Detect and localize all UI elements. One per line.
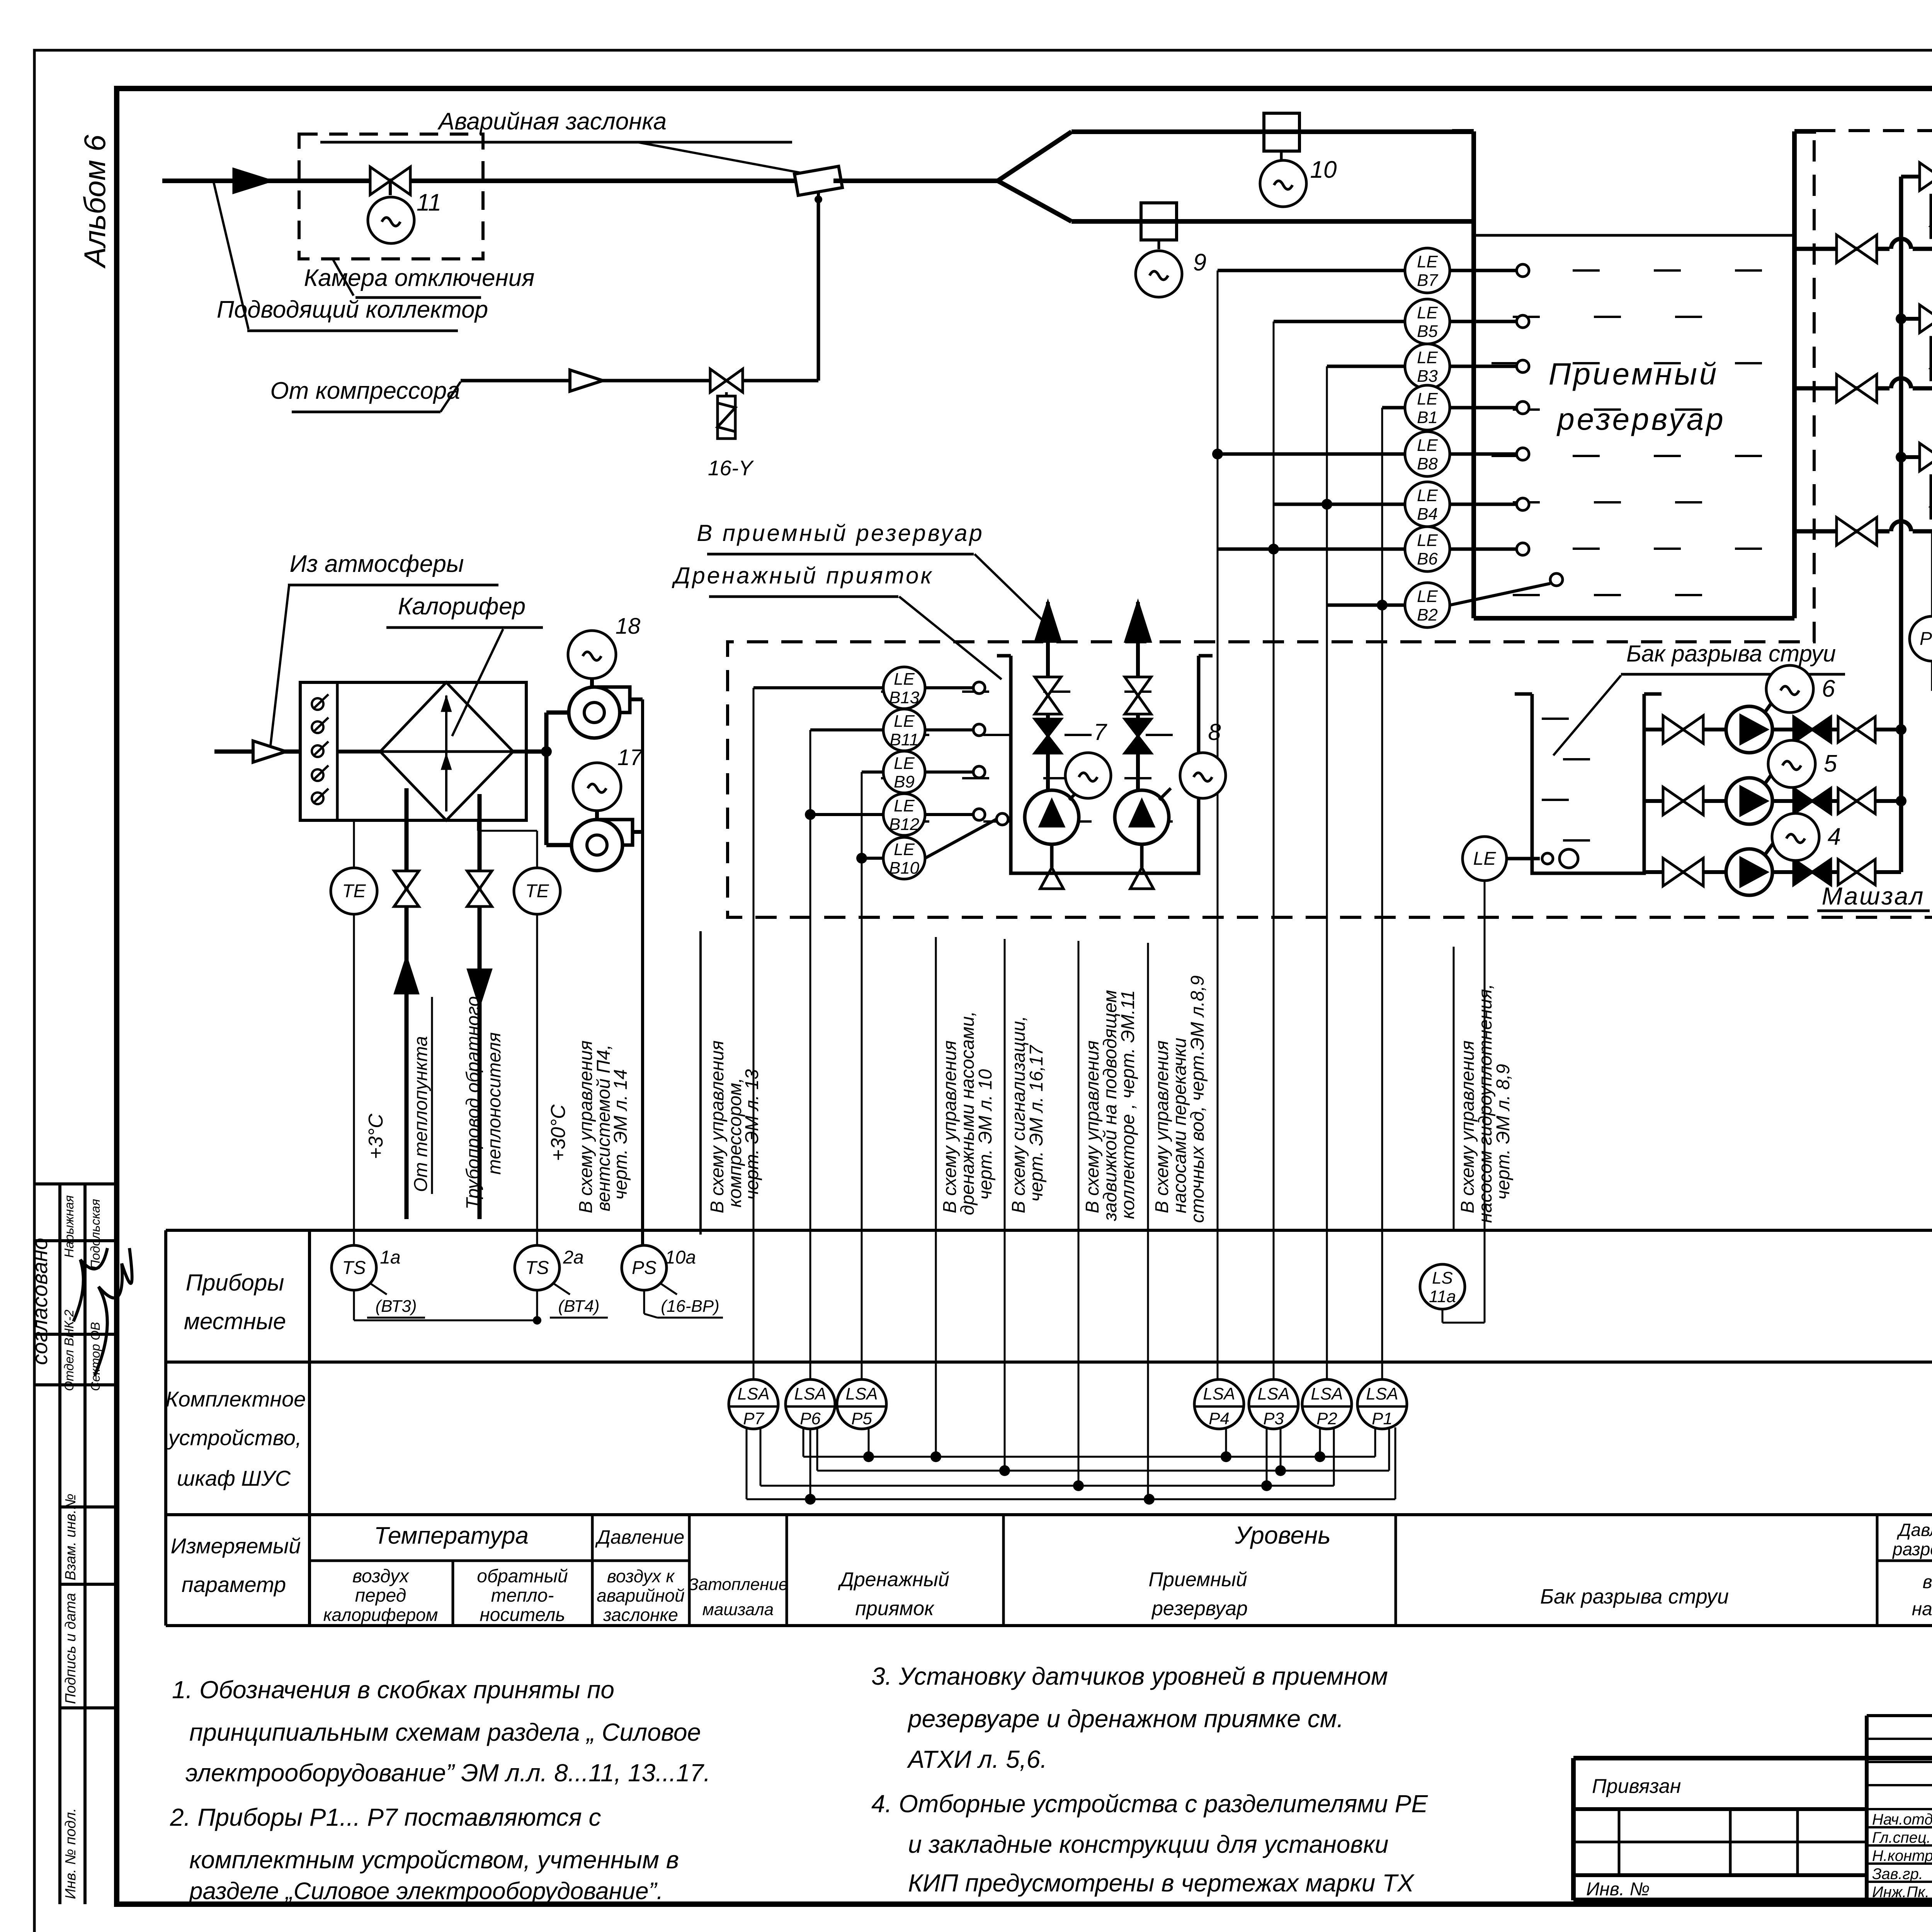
svg-text:LE: LE <box>1417 587 1438 606</box>
LSA relay Р3 <box>1249 1379 1298 1429</box>
svg-text:разделе „Силовое электрообору: разделе „Силовое электрооборудование”. <box>189 1878 663 1905</box>
valve suction pump1 <box>1837 517 1857 545</box>
svg-text:черт. ЭМ л. 14: черт. ЭМ л. 14 <box>611 1069 631 1200</box>
LSA relay Р4 <box>1194 1379 1244 1429</box>
svg-text:В10: В10 <box>889 859 920 878</box>
svg-text:Р4: Р4 <box>1209 1409 1230 1428</box>
svg-text:черт. ЭМ л. 8,9: черт. ЭМ л. 8,9 <box>1493 1064 1514 1200</box>
svg-text:11: 11 <box>417 189 441 216</box>
svg-text:черт. ЭМ л. 10: черт. ЭМ л. 10 <box>975 1069 996 1200</box>
svg-text:заслонке: заслонке <box>603 1605 678 1625</box>
duct fork <box>998 132 1071 181</box>
margin signature squiggles <box>73 1248 107 1321</box>
reservoir bottom <box>1474 616 1794 621</box>
wire B5 drop <box>1274 320 1405 323</box>
wire B4 join <box>1274 503 1405 506</box>
svg-text:комплектным устройством, учте: комплектным устройством, учтенным в <box>189 1846 679 1874</box>
svg-text:TE: TE <box>342 881 366 901</box>
TE sensor return <box>514 868 560 914</box>
sump tank <box>1011 670 1199 873</box>
LE sensor B1 <box>1405 385 1450 430</box>
wire B1 drop <box>1382 406 1405 410</box>
svg-text:LSA: LSA <box>1366 1384 1398 1403</box>
valve hydro out 5 <box>1838 788 1857 814</box>
svg-text:Нарыжная: Нарыжная <box>62 1195 76 1258</box>
svg-text:В12: В12 <box>889 815 919 834</box>
wire B3 drop <box>1327 365 1405 368</box>
damper box 10 <box>1264 113 1299 151</box>
svg-text:В5: В5 <box>1417 322 1438 341</box>
svg-text:LSA: LSA <box>1203 1384 1235 1403</box>
svg-text:10а: 10а <box>665 1247 696 1268</box>
check valve hydro 6 <box>1794 717 1812 742</box>
flow arrow on collector <box>234 169 270 192</box>
bus line 4 <box>746 1427 748 1499</box>
callout podvod <box>214 182 248 329</box>
svg-text:коллекторе , черт. ЭМ.11: коллекторе , черт. ЭМ.11 <box>1118 990 1138 1219</box>
svg-text:В4: В4 <box>1417 505 1438 524</box>
svg-text:Альбом 6: Альбом 6 <box>78 134 112 269</box>
svg-text:черт. ЭМ л. 13: черт. ЭМ л. 13 <box>742 1069 762 1200</box>
camera otklyucheniya dashed box <box>299 134 483 259</box>
callout camera <box>333 260 354 296</box>
callout drenazh <box>899 597 1002 679</box>
hydro pump 4 <box>1726 849 1772 895</box>
svg-text:17: 17 <box>617 745 643 770</box>
callout bak <box>1553 675 1621 755</box>
svg-text:Уровень: Уровень <box>1235 1521 1331 1549</box>
svg-text:Бак разрыва струи: Бак разрыва струи <box>1540 1585 1729 1608</box>
wire TE air down <box>353 914 355 1245</box>
callout priemny <box>975 554 1045 623</box>
wire hydro collector dots <box>1896 724 1906 735</box>
svg-text:2. Приборы Р1... Р7 поставл: 2. Приборы Р1... Р7 поставляются с <box>170 1803 601 1831</box>
signature column grid <box>1867 1714 1932 1717</box>
bus stubs LSA <box>868 1427 870 1457</box>
svg-text:8: 8 <box>1208 719 1221 745</box>
svg-text:Инж.Пк.: Инж.Пк. <box>1872 1884 1929 1901</box>
valve heat supply <box>394 871 419 889</box>
actuator circle 11 <box>368 197 414 243</box>
LE sensor B13 <box>883 667 925 709</box>
wire kompressor label line <box>699 931 702 1235</box>
LE sensor B11 <box>883 709 925 751</box>
wire+label shema zadvizhka <box>1078 941 1080 1486</box>
svg-text:разрежение: разрежение <box>1892 1539 1932 1559</box>
svg-text:Гл.спец.: Гл.спец. <box>1872 1829 1931 1846</box>
LE sensor bak <box>1463 837 1507 881</box>
bus line 3 <box>760 1427 762 1486</box>
bus line 2 <box>816 1427 818 1471</box>
motor 6 <box>1765 699 1774 713</box>
LSA relay Р2 <box>1302 1379 1352 1429</box>
svg-text:(ВТ4): (ВТ4) <box>558 1297 599 1316</box>
wire duct upper branch <box>1071 129 1474 134</box>
wire compressor line <box>461 379 711 383</box>
LE sensor B10 <box>883 837 925 879</box>
svg-text:обратный: обратный <box>477 1566 568 1587</box>
svg-text:Дренажный прияток: Дренажный прияток <box>672 563 934 588</box>
heat supply pipe <box>405 788 409 1219</box>
LE sensor B6 <box>1405 527 1450 571</box>
valve suction pump3 <box>1837 235 1857 263</box>
title block outline <box>1573 1756 1932 1760</box>
svg-text:В приемный резервуар: В приемный резервуар <box>697 520 984 546</box>
svg-text:Р3: Р3 <box>1263 1409 1284 1428</box>
svg-text:4: 4 <box>1828 823 1841 850</box>
svg-text:Давление-: Давление- <box>1896 1520 1932 1540</box>
motor 17 <box>595 811 599 820</box>
svg-text:машзала: машзала <box>702 1600 774 1619</box>
svg-text:LSA: LSA <box>737 1384 769 1403</box>
motor 8 <box>1159 788 1171 800</box>
svg-text:LE: LE <box>1417 252 1438 271</box>
svg-text:Дренажный: Дренажный <box>838 1568 949 1591</box>
wire air inlet <box>214 750 300 754</box>
valve suction pump2 <box>1837 374 1857 402</box>
solenoid valve 16-Y <box>710 369 726 392</box>
wire B2 join <box>1327 604 1405 607</box>
svg-text:TS: TS <box>342 1258 366 1278</box>
svg-text:АТХИ л. 5,6.: АТХИ л. 5,6. <box>906 1745 1047 1773</box>
valve hydro out 4 <box>1838 859 1857 885</box>
wire suction pump3 <box>1794 247 1932 251</box>
svg-text:(16-ВР): (16-ВР) <box>661 1297 719 1316</box>
svg-text:В9: В9 <box>894 772 915 791</box>
open arrow compressor <box>570 370 603 391</box>
motor 4 <box>1765 842 1774 855</box>
wire B6 join <box>1218 548 1405 551</box>
callout to damper <box>638 142 811 175</box>
LE sensor B4 <box>1405 482 1450 527</box>
bus line 1 <box>803 1427 804 1457</box>
svg-text:LE: LE <box>894 754 915 773</box>
svg-text:16-Y: 16-Y <box>708 456 754 480</box>
LSA relay Р7 <box>729 1379 778 1429</box>
svg-text:Отдел ВНК-2: Отдел ВНК-2 <box>62 1310 76 1391</box>
row3 verticals <box>591 1515 594 1626</box>
svg-text:Измеряемый: Измеряемый <box>171 1534 301 1558</box>
svg-text:В8: В8 <box>1417 454 1438 473</box>
svg-text:LE: LE <box>894 840 915 859</box>
svg-text:LE: LE <box>1417 303 1438 322</box>
svg-text:электрооборудование” ЭМ л.л. 8: электрооборудование” ЭМ л.л. 8...11, 13.… <box>185 1759 711 1787</box>
svg-text:2а: 2а <box>563 1247 583 1268</box>
callout atmosfera <box>270 586 289 746</box>
svg-text:11а: 11а <box>1429 1287 1456 1306</box>
svg-text:Приборы: Приборы <box>186 1270 284 1296</box>
svg-text:В3: В3 <box>1417 367 1438 386</box>
motor 7 <box>1069 788 1081 800</box>
arrow heat return <box>468 970 491 1005</box>
svg-text:LE: LE <box>894 712 915 731</box>
svg-text:Взам. инв.№: Взам. инв.№ <box>63 1494 79 1580</box>
fan 2 scroll <box>600 820 633 845</box>
svg-text:LSA: LSA <box>1311 1384 1343 1403</box>
svg-text:В1: В1 <box>1417 408 1438 427</box>
svg-text:LE: LE <box>1417 531 1438 550</box>
heat return pipe <box>478 794 482 1219</box>
bak tank <box>1532 694 1644 873</box>
svg-text:КИП предусмотрены в чертежа: КИП предусмотрены в чертежах марки ТХ <box>908 1869 1415 1897</box>
svg-text:воздух к: воздух к <box>607 1566 675 1586</box>
wire LE bak down <box>1484 881 1486 1323</box>
wire hydro line 6 <box>1644 728 1901 731</box>
heater diamond <box>380 682 513 820</box>
valve hydro in 5 <box>1663 787 1683 815</box>
wire hydro line 4 <box>1644 870 1901 874</box>
wire hydro line 5 <box>1644 799 1901 803</box>
reservoir water level <box>1474 234 1794 237</box>
svg-text:18: 18 <box>616 614 641 639</box>
wire+label shema signalizacii mid <box>1004 939 1006 1471</box>
svg-text:В13: В13 <box>889 688 920 707</box>
svg-text:+30°С: +30°С <box>547 1104 570 1161</box>
PE hydro <box>1931 531 1932 617</box>
svg-text:LE: LE <box>1417 389 1438 408</box>
svg-text:Из атмосферы: Из атмосферы <box>290 551 464 577</box>
machine hall dashed boundary <box>728 131 1932 917</box>
wire suction pump2 <box>1794 386 1932 391</box>
svg-text:приямок: приямок <box>855 1597 935 1620</box>
wire B11 drop <box>810 728 883 731</box>
svg-text:Р5: Р5 <box>851 1409 872 1428</box>
svg-text:4. Отборные устройства с ра: 4. Отборные устройства с разделителями Р… <box>871 1790 1428 1818</box>
wire TS1a bottom <box>353 1290 355 1320</box>
svg-text:В11: В11 <box>889 730 918 749</box>
svg-text:10: 10 <box>1310 156 1337 183</box>
bypass pump3 <box>1901 175 1932 179</box>
wire+label shema drenazh nasosy <box>935 937 937 1457</box>
svg-text:Подпись и дата: Подпись и дата <box>63 1593 79 1704</box>
wire duct to fork <box>833 179 998 183</box>
valve hydro out 6 <box>1838 717 1857 742</box>
svg-text:+3°С: +3°С <box>365 1114 387 1159</box>
wire suction header <box>1899 177 1903 531</box>
svg-text:LE: LE <box>1473 849 1497 869</box>
svg-text:Температура: Температура <box>374 1522 529 1549</box>
svg-text:В7: В7 <box>1417 271 1438 290</box>
svg-text:(ВТ3): (ВТ3) <box>375 1297 417 1316</box>
svg-text:1. Обозначения в скобках п: 1. Обозначения в скобках приняты по <box>172 1676 614 1704</box>
bypass pump1 <box>1901 455 1932 459</box>
svg-text:параметр: параметр <box>182 1572 286 1597</box>
svg-text:Р6: Р6 <box>800 1409 821 1428</box>
svg-text:насоса: насоса <box>1912 1599 1932 1619</box>
svg-text:6: 6 <box>1822 675 1835 702</box>
sump water dashes <box>881 690 908 693</box>
svg-text:Инв. № подл.: Инв. № подл. <box>63 1808 79 1899</box>
svg-text:LE: LE <box>894 796 915 815</box>
svg-text:Бак разрыва струи: Бак разрыва струи <box>1626 641 1836 667</box>
callout kalorifer <box>452 629 503 736</box>
svg-text:Сектор ОВ: Сектор ОВ <box>88 1322 102 1391</box>
svg-text:Нач.отд.: Нач.отд. <box>1872 1811 1932 1828</box>
LE sensor B2 <box>1405 583 1450 628</box>
sump riser pump 8 <box>1136 602 1140 793</box>
svg-text:Затопление: Затопление <box>688 1575 788 1594</box>
svg-text:Р2: Р2 <box>1316 1409 1337 1428</box>
svg-text:LE: LE <box>1417 348 1438 367</box>
LE sensor B7 <box>1405 248 1450 293</box>
LE sensor B3 <box>1405 344 1450 389</box>
bypass pump2 <box>1901 317 1932 321</box>
svg-text:LE: LE <box>894 670 915 689</box>
TS instrument 2a <box>515 1245 560 1290</box>
damper box 9 <box>1141 203 1177 240</box>
drain pump 8 <box>1115 790 1169 844</box>
svg-text:7: 7 <box>1094 719 1107 745</box>
svg-text:аварийной: аварийной <box>597 1585 684 1605</box>
svg-text:устройство,: устройство, <box>167 1425 302 1450</box>
svg-text:5: 5 <box>1824 750 1837 777</box>
air unit box <box>300 682 526 820</box>
svg-text:перед: перед <box>355 1585 406 1606</box>
wire header to bak collector <box>1899 531 1903 872</box>
margin stamp box lines <box>58 1184 61 1904</box>
svg-text:Приемный: Приемный <box>1148 1568 1247 1591</box>
svg-text:всас: всас <box>1923 1572 1932 1592</box>
LE sensor B12 <box>883 794 925 835</box>
filter section divider <box>336 682 339 820</box>
svg-text:LE: LE <box>1417 436 1438 455</box>
valve hydro in 4 <box>1663 858 1683 886</box>
svg-text:сточных вод, черт.ЭМ л.8,9: сточных вод, черт.ЭМ л.8,9 <box>1187 975 1208 1223</box>
open arrow air inlet <box>253 741 286 762</box>
hydro pump 6 <box>1726 706 1772 753</box>
wire B8 join <box>1218 452 1405 456</box>
svg-text:Подводящий коллектор: Подводящий коллектор <box>217 296 488 323</box>
LE sensor B8 <box>1405 432 1450 476</box>
svg-text:От компрессора: От компрессора <box>270 378 460 404</box>
check valve hydro 4 <box>1794 859 1812 885</box>
wire+label shema gidroupl <box>1453 947 1455 1231</box>
wire supply collector <box>162 179 803 183</box>
LSA relay Р6 <box>786 1379 835 1429</box>
damper on collector <box>794 166 842 195</box>
PS instrument 10a <box>622 1245 667 1290</box>
svg-text:Зав.гр.: Зав.гр. <box>1872 1866 1923 1883</box>
svg-text:Подольская: Подольская <box>88 1199 102 1269</box>
svg-text:согласовано: согласовано <box>27 1238 52 1365</box>
check valve hydro 5 <box>1794 788 1812 814</box>
svg-text:Инв. №: Инв. № <box>1586 1879 1650 1900</box>
wire suction pump1 <box>1794 529 1932 534</box>
title block small grid <box>1573 1873 1867 1877</box>
sump riser pump 7 <box>1046 602 1050 793</box>
wire TE air duct tap <box>353 820 355 868</box>
actuator 10 <box>1260 160 1306 207</box>
svg-text:принципиальным схемам раздел: принципиальным схемам раздела „ Силовое <box>189 1718 701 1746</box>
LSA relay Р1 <box>1357 1379 1407 1429</box>
reservoir water dashes <box>1492 269 1519 272</box>
reservoir right wall <box>1792 131 1797 618</box>
valve hydro in 6 <box>1663 716 1683 743</box>
drain pump 7 <box>1025 790 1079 844</box>
svg-text:LE: LE <box>1417 486 1438 505</box>
row3 header divider <box>310 1560 689 1562</box>
wire B7 drop <box>1218 269 1405 272</box>
wire vent duct down <box>630 697 643 701</box>
svg-text:От теплопункта: От теплопункта <box>411 1036 431 1192</box>
svg-text:местные: местные <box>184 1308 286 1334</box>
svg-text:LSA: LSA <box>1257 1384 1289 1403</box>
wire B10 join <box>862 857 883 860</box>
svg-text:воздух: воздух <box>352 1566 410 1587</box>
LSA relay Р5 <box>837 1379 886 1429</box>
wire heater to fans <box>526 750 546 754</box>
svg-text:LSA: LSA <box>794 1384 826 1403</box>
svg-text:LSA: LSA <box>845 1384 878 1403</box>
TS instrument 1a <box>332 1245 376 1290</box>
svg-text:Давление: Давление <box>595 1526 685 1548</box>
svg-text:Трубопровод обратного: Трубопровод обратного <box>463 996 483 1209</box>
svg-text:Н.контр.: Н.контр. <box>1872 1847 1932 1864</box>
motor 5 <box>1765 770 1774 784</box>
header junction dots <box>1896 313 1906 324</box>
svg-text:PS: PS <box>632 1258 656 1278</box>
wire+label shema nasosy perekachki <box>1147 943 1149 1499</box>
table outer lines <box>166 1229 1932 1232</box>
svg-text:3. Установку датчиков уровне: 3. Установку датчиков уровней в приемном <box>871 1662 1388 1690</box>
svg-text:Калорифер: Калорифер <box>398 593 526 620</box>
svg-text:LS: LS <box>1432 1269 1453 1287</box>
svg-text:Р1: Р1 <box>1372 1409 1393 1428</box>
svg-text:носитель: носитель <box>480 1605 565 1625</box>
svg-text:Р7: Р7 <box>743 1409 764 1428</box>
wire TE return tap <box>477 820 479 831</box>
arrow heat supply <box>395 958 418 993</box>
svg-text:1а: 1а <box>380 1247 400 1268</box>
svg-text:черт. ЭМ л. 16,17: черт. ЭМ л. 16,17 <box>1026 1044 1047 1202</box>
callout kompressor <box>440 382 461 412</box>
svg-text:шкаф ШУС: шкаф ШУС <box>177 1466 291 1490</box>
TE sensor air <box>331 868 377 914</box>
svg-text:теплоносителя: теплоносителя <box>484 1032 505 1175</box>
wire B13 drop <box>753 686 883 689</box>
reservoir left wall <box>1471 131 1476 618</box>
svg-text:Аварийная заслонка: Аварийная заслонка <box>437 108 667 135</box>
motor 18 <box>590 679 594 688</box>
valve 11 body <box>370 167 390 195</box>
svg-text:резервуар: резервуар <box>1556 402 1725 436</box>
filter slashes <box>312 698 323 710</box>
wire duct lower branch <box>1071 219 1474 224</box>
LS instrument 11a <box>1420 1264 1465 1309</box>
fan 1 scroll <box>597 687 630 713</box>
svg-text:TE: TE <box>525 881 549 901</box>
svg-text:и закладные конструкции для: и закладные конструкции для установки <box>908 1830 1389 1858</box>
svg-text:9: 9 <box>1193 249 1206 276</box>
svg-text:тепло-: тепло- <box>491 1585 554 1606</box>
wire B12 join <box>810 813 883 816</box>
svg-text:резервуар: резервуар <box>1151 1597 1248 1620</box>
svg-text:Комплектное: Комплектное <box>166 1387 306 1411</box>
svg-text:PE: PE <box>1920 629 1932 649</box>
actuator 9 <box>1136 251 1182 297</box>
svg-text:Привязан: Привязан <box>1592 1775 1681 1798</box>
hydro pump 5 <box>1726 778 1772 824</box>
svg-text:TS: TS <box>525 1258 549 1278</box>
valve heat return <box>467 871 492 889</box>
LE sensor B5 <box>1405 299 1450 344</box>
wire B9 drop <box>862 770 883 774</box>
svg-text:калорифером: калорифером <box>323 1605 438 1625</box>
svg-text:Приемный: Приемный <box>1549 357 1719 391</box>
wire TE return down <box>536 914 538 1245</box>
svg-text:В6: В6 <box>1417 549 1438 568</box>
svg-text:В2: В2 <box>1417 605 1438 624</box>
